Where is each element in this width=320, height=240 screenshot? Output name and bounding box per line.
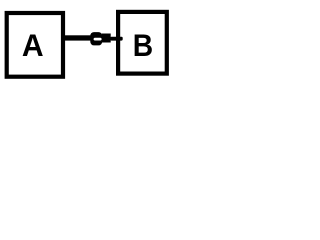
junction slot <box>94 38 102 41</box>
junction <box>90 32 102 45</box>
wire <box>63 35 103 40</box>
svg-text:B: B <box>133 29 153 64</box>
node B <box>118 12 167 74</box>
svg-text:A: A <box>22 27 44 63</box>
arrowhead <box>102 34 123 43</box>
node A <box>7 13 63 77</box>
